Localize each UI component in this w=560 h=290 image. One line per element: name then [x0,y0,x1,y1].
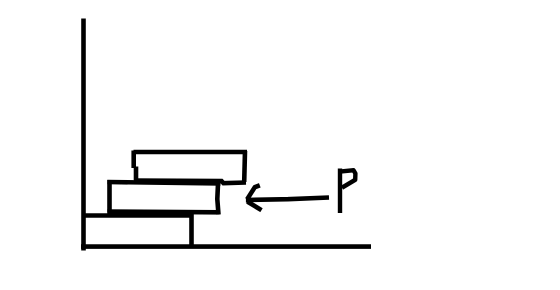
block B3 left edge [134,151,136,181]
block B2 bottom edge [107,209,219,214]
block B2 top edge [107,182,220,184]
block B2 left edge [107,180,112,213]
wall [81,19,86,251]
arrow P head lower stroke [247,202,261,211]
arrow P head tip blob [246,197,251,203]
label P vertical stroke [338,169,342,214]
label P bowl [340,170,355,188]
block B1 top edge [82,213,194,218]
arrow P shaft [247,198,330,201]
block B3 right edge [242,151,247,182]
arrow P head upper stroke [247,185,260,199]
block B1 right edge [189,214,194,247]
block B3 top edge [134,150,248,155]
floor [81,244,371,249]
block B3 bottom edge [134,181,246,184]
block B2 right edge [217,184,218,215]
